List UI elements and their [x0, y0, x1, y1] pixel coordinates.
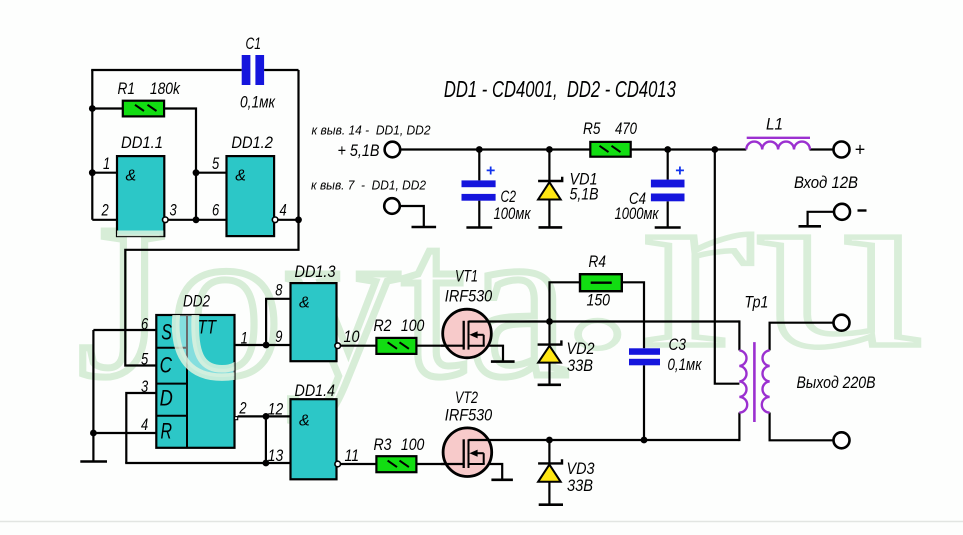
terminal +5.1V [385, 142, 401, 158]
wire S-R common vertical to ground [92, 330, 94, 461]
svg-text:1000мк: 1000мк [615, 204, 660, 223]
value VT1 IRF530 [445, 287, 493, 306]
title DD1-CD4001 DD2-CD4013 [444, 76, 676, 102]
zener diode VD2 [538, 340, 562, 362]
terminal pin7 [384, 198, 400, 214]
svg-text:DD2: DD2 [183, 292, 210, 311]
svg-text:33В: 33В [567, 356, 593, 375]
plus mark C2 [486, 163, 495, 180]
wire DD2 pin3 D lead [126, 393, 156, 463]
wire VD2 cathode lead [548, 322, 550, 345]
svg-text:1: 1 [103, 154, 110, 173]
label VD3 [567, 459, 595, 478]
svg-text:11: 11 [345, 446, 360, 465]
pin 8 DD1.3 [275, 280, 283, 299]
pin 3 DD1.1 [170, 200, 178, 219]
ground C2 [466, 226, 492, 229]
wire oscillator top left segment [91, 69, 242, 71]
pin 1 DD2 [241, 329, 248, 348]
value VD3 33V [567, 476, 593, 495]
node junction DD2 pin1 [263, 342, 270, 349]
wire Tp1 primary bottom lead [738, 413, 740, 442]
wire DD2 pin2 output to DD1.4 pin12 [238, 415, 291, 417]
capacitor C4 [651, 180, 685, 202]
wire Tp1 primary top lead [738, 320, 740, 350]
resistor R5 [590, 142, 630, 157]
wire power rail right of R5 [631, 148, 747, 150]
node junction DD1.1 out [193, 216, 200, 223]
wire VD3 cathode lead [548, 440, 550, 463]
svg-text:DD1.4: DD1.4 [295, 381, 336, 400]
svg-text:4: 4 [280, 200, 287, 219]
label C1 [246, 34, 262, 53]
svg-text:VT1: VT1 [455, 267, 478, 286]
wire DD1.3 pin10 output to R2 [341, 345, 377, 347]
pin 4 DD1.2 [280, 200, 287, 219]
svg-text:100: 100 [401, 316, 425, 335]
plus mark C4 [675, 163, 684, 180]
node junction S-R ground [90, 430, 97, 437]
value R3 100 [401, 435, 425, 454]
svg-text:1: 1 [241, 329, 248, 348]
node junction rail C2 [476, 146, 483, 153]
svg-text:470: 470 [615, 119, 637, 138]
wire power rail left of R5 [400, 148, 590, 150]
wire C4 bottom lead [667, 201, 669, 227]
svg-text:8: 8 [275, 280, 283, 299]
pin 4 DD2 [141, 415, 148, 434]
svg-text:+: + [675, 163, 684, 180]
label Tp1 [744, 293, 768, 312]
label VD1 [570, 170, 598, 189]
wire DD1.1 pin1 lead [92, 172, 117, 174]
wire C2 bottom lead [478, 201, 480, 228]
svg-text:12: 12 [268, 399, 284, 418]
terminal output bottom [834, 432, 850, 448]
svg-text:IRF530: IRF530 [445, 406, 493, 425]
wire R3 to VT2 gate [416, 463, 463, 465]
svg-text:DD1 - CD4001, DD2 - CD4013: DD1 - CD4001, DD2 - CD4013 [444, 76, 676, 102]
ground VD2 [538, 383, 561, 386]
pin 6 DD1.2 [212, 200, 220, 219]
wire L1 to plus terminal [810, 148, 834, 150]
node junction DD1.2 out [295, 216, 302, 223]
wire R4 left lead down to drain node [550, 282, 581, 321]
svg-text:IRF530: IRF530 [445, 287, 493, 306]
logic gate DD1.3 [291, 283, 337, 361]
wire VD3 anode to ground [548, 482, 550, 505]
value R1 180k [150, 79, 181, 98]
label R2 [374, 316, 392, 335]
ground VD3 [539, 503, 563, 506]
pin 3 DD2 [141, 377, 149, 396]
wire VD1 anode to ground [548, 200, 550, 228]
label Vhod 12V [794, 173, 858, 192]
svg-text:13: 13 [268, 446, 284, 465]
svg-text:100: 100 [401, 435, 425, 454]
pin 5 DD2 [141, 349, 149, 368]
node junction VT1 drain [546, 318, 553, 325]
wire VD2 anode to ground [548, 362, 550, 385]
wire oscillator right vertical [297, 70, 299, 220]
svg-text:Выход 220В: Выход 220В [797, 373, 876, 392]
resistor R4 [580, 274, 622, 291]
label R5 [583, 119, 601, 138]
wire R1 left lead [92, 107, 123, 109]
svg-text:VT2: VT2 [455, 388, 478, 407]
node junction C3 bottom [641, 437, 648, 444]
resistor R1 [123, 101, 164, 117]
terminal input minus [834, 204, 850, 220]
svg-text:5,1В: 5,1В [570, 185, 599, 204]
svg-text:Вход 12В: Вход 12В [794, 173, 858, 192]
svg-text:150: 150 [587, 291, 611, 310]
svg-text:9: 9 [275, 327, 283, 346]
svg-text:33В: 33В [567, 476, 593, 495]
wire VT1 source to ground [468, 346, 503, 362]
wire center tap feed from rail [715, 150, 740, 384]
capacitor C2 [462, 180, 496, 200]
transistor VT2 IRF530 [441, 428, 492, 477]
value VT2 IRF530 [445, 406, 493, 425]
label DD1.4 [295, 381, 336, 400]
plus mark input [855, 140, 866, 160]
svg-text:R4: R4 [589, 252, 606, 271]
ground VT2 source [491, 478, 513, 481]
zener diode VD1 [538, 177, 562, 200]
op-amp U: logic gate DD1.1 [117, 156, 164, 236]
wire terminal pin7 to ground [400, 206, 424, 227]
svg-text:5: 5 [141, 349, 149, 368]
svg-text:к выв. 7 - DD1, DD2: к выв. 7 - DD1, DD2 [311, 178, 426, 192]
svg-text:180k: 180k [150, 79, 181, 98]
svg-text:R2: R2 [374, 316, 392, 335]
minus mark input [858, 209, 867, 211]
node junction DD1.1 pin1 [89, 169, 96, 176]
svg-text:DD1.2: DD1.2 [231, 133, 273, 152]
label DD1.1 [121, 133, 163, 152]
svg-text:&: & [299, 412, 310, 429]
label VD2 [567, 339, 595, 358]
wire C3 bottom lead [643, 365, 645, 440]
terminal output top [834, 315, 850, 331]
wire R2 to VT1 gate [416, 345, 463, 347]
svg-text:R3: R3 [374, 435, 392, 454]
svg-text:+: + [486, 163, 495, 180]
wire bottom D feedback to pin13 [125, 462, 290, 464]
terminal input plus [834, 142, 850, 158]
svg-text:4: 4 [141, 415, 148, 434]
label VT1 [455, 267, 478, 286]
value C3 0,1mk [668, 355, 703, 374]
svg-text:DD1.1: DD1.1 [121, 133, 163, 152]
label VT2 [455, 388, 478, 407]
node junction rail VD1 [546, 146, 553, 153]
svg-text:L1: L1 [766, 115, 783, 134]
pin 1 DD1.1 [103, 154, 110, 173]
capacitor C1 [242, 55, 264, 85]
label DD2 [183, 292, 210, 311]
svg-text:R1: R1 [118, 79, 135, 98]
ground C4 [655, 226, 681, 229]
wire VD1 cathode lead [548, 150, 550, 182]
svg-text:0,1мк: 0,1мк [668, 355, 703, 374]
wire DD1.2 pin4 output lead [278, 219, 298, 221]
label R3 [374, 435, 392, 454]
svg-text:10: 10 [344, 327, 360, 346]
wire VT2 source to ground [468, 464, 502, 480]
flip-flop DD2 [156, 315, 234, 448]
svg-text:+ 5,1В: + 5,1В [338, 142, 380, 160]
wire VT1 drain to Tp1 primary top [468, 320, 739, 322]
wire Tp1 secondary bottom lead to output [770, 413, 834, 441]
pin 10 DD1.3 [344, 327, 360, 346]
wire DD1.4 pin11 output to R3 [341, 463, 377, 465]
wire DD1.1 pin2 lead [92, 219, 117, 221]
value VD1 5,1V [570, 185, 599, 204]
ground VD1 [539, 226, 563, 229]
svg-text:DD1.3: DD1.3 [295, 262, 336, 281]
pin 6 DD2 [141, 314, 149, 333]
label C4 [629, 189, 646, 208]
label Vyhod 220V [797, 373, 876, 392]
svg-text:.ru: .ru [556, 137, 926, 397]
resistor R3 [376, 456, 416, 472]
wire C4 top lead [667, 150, 669, 180]
svg-text:100мк: 100мк [494, 204, 532, 223]
value R2 100 [401, 316, 425, 335]
value R4 150 [587, 291, 611, 310]
svg-text:к выв. 14 - DD1, DD2: к выв. 14 - DD1, DD2 [312, 124, 431, 138]
label +5,1V [338, 142, 380, 160]
svg-text:C1: C1 [246, 34, 262, 53]
capacitor C3 [629, 348, 660, 365]
pin 2 DD2 [239, 399, 247, 418]
node junction DD1.2 pin5 [193, 169, 200, 176]
node junction rail C4 [664, 146, 671, 153]
border line bottom [0, 521, 963, 523]
svg-text:0,1мк: 0,1мк [240, 93, 276, 112]
transformer Tp1 secondary winding [762, 350, 770, 412]
transformer Tp1 primary winding [739, 350, 747, 412]
logic gate DD1.2 [227, 156, 275, 236]
svg-text:6: 6 [141, 314, 149, 333]
resistor R2 [376, 338, 416, 354]
value C1 0,1mk [240, 93, 276, 112]
svg-text:Тр1: Тр1 [744, 293, 768, 312]
node junction R1 left [89, 105, 96, 112]
node junction pin13 [263, 460, 270, 467]
wire R4 right lead down to C3 [622, 282, 644, 348]
logic gate DD1.4 [291, 399, 337, 479]
transformer Tp1 core [753, 342, 756, 422]
ground minus input [799, 225, 822, 228]
wire branch pin2 to pin13 line [265, 416, 267, 463]
wire DD1.2 pin5 lead [196, 172, 227, 174]
ground DD2 S/R [80, 460, 107, 463]
pin 2 DD1.1 [101, 200, 109, 219]
label DD1.3 [295, 262, 336, 281]
node junction rail center tap [711, 146, 718, 153]
svg-text:&: & [299, 295, 310, 312]
wire minus terminal to ground [808, 212, 834, 227]
label C2 [501, 187, 517, 206]
pin bubble DD1.4 pin11 [335, 461, 341, 467]
label R4 [589, 252, 606, 271]
node junction VT2 drain [546, 437, 553, 444]
pin 11 DD1.4 [345, 446, 360, 465]
ground VT1 source [491, 360, 515, 363]
pin 5 DD1.2 [212, 154, 220, 173]
svg-text:C3: C3 [669, 335, 687, 354]
pin notch DD2 pin2 inverse output [235, 417, 238, 420]
value R5 470 [615, 119, 637, 138]
value C4 1000mk [615, 204, 660, 223]
wire feedback jog to DD2 clock [125, 219, 298, 366]
wire DD1.1 pin3 output to DD1.2 pin6 [168, 219, 226, 221]
label R1 [118, 79, 135, 98]
svg-text:R5: R5 [583, 119, 601, 138]
wire branch to DD1.3 pin8 [266, 299, 290, 345]
note k vyv 14 [312, 124, 431, 138]
note k vyv 7 [311, 178, 426, 192]
ground pin7 terminal [412, 226, 437, 229]
label DD1.2 [231, 133, 273, 152]
svg-text:&: & [235, 168, 246, 185]
svg-text:5: 5 [212, 154, 220, 173]
value C2 100mk [494, 204, 532, 223]
svg-text:2: 2 [239, 399, 247, 418]
node junction DD2 pin2 [263, 413, 270, 420]
wire R1 right lead [164, 109, 196, 220]
inductor L1 [746, 138, 810, 150]
label C3 [669, 335, 687, 354]
wire oscillator left vertical [91, 70, 93, 220]
watermark Joyta.ru [78, 180, 572, 423]
svg-text:+: + [855, 140, 866, 160]
wire oscillator top right segment [264, 69, 298, 71]
wire DD2 pin4 R lead [93, 432, 156, 434]
pin 12 DD1.4 [268, 399, 284, 418]
wire Tp1 secondary top lead to output [770, 323, 834, 351]
pin 9 DD1.3 [275, 327, 283, 346]
label L1 [766, 115, 783, 134]
svg-text:6: 6 [212, 200, 220, 219]
pin bubble DD1.2 pin4 [272, 217, 278, 223]
transistor VT1 IRF530 [441, 309, 491, 358]
wire DD2 pin1 output to DD1.3 pin9 [235, 344, 291, 346]
watermark overlay on IC boxes [78, 185, 561, 422]
wire C2 top lead [478, 150, 480, 181]
pin bubble DD1.1 pin3 [163, 217, 169, 223]
svg-text:2: 2 [101, 200, 109, 219]
zener diode VD3 [538, 459, 562, 482]
svg-text:3: 3 [170, 200, 178, 219]
svg-text:&: & [126, 168, 137, 185]
pin bubble DD1.3 pin10 [335, 343, 341, 349]
pin 13 DD1.4 [268, 446, 284, 465]
svg-text:3: 3 [141, 377, 149, 396]
wire VT2 drain to Tp1 primary bottom [468, 439, 739, 441]
wire DD2 pin6 S lead [93, 329, 156, 331]
value VD2 33V [567, 356, 593, 375]
